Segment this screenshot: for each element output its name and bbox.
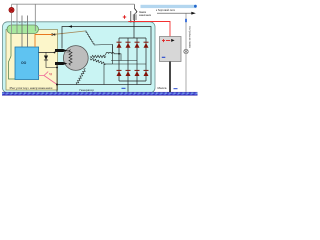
node ground junction (56, 84, 58, 86)
minus mark generator (122, 88, 126, 89)
upper brush (55, 49, 67, 52)
battery minus wire (169, 62, 171, 93)
node diode junction (56, 67, 58, 69)
rectifier bottom bus (119, 80, 146, 82)
star ground drop (103, 64, 105, 85)
onboard net dot (194, 5, 197, 8)
switch label (139, 11, 152, 17)
battery plus tick (166, 39, 170, 42)
ground bus (2, 92, 198, 95)
green wire left (9, 34, 16, 80)
phase bus vertical (112, 45, 114, 65)
onboard arrow wire (157, 12, 192, 14)
plus label left (123, 15, 126, 18)
diode top 2 (126, 42, 131, 48)
node orange junction (54, 34, 56, 36)
generator internal bottom border (50, 84, 151, 86)
node riser top (133, 21, 135, 23)
svg-text:ОО: ОО (21, 61, 27, 65)
control lamp wire (185, 13, 187, 92)
upper brush wire (39, 51, 58, 53)
svg-text:ТД: ТД (49, 73, 52, 76)
minus mark massa (174, 88, 178, 89)
regulator chip DD (15, 47, 39, 80)
blue connector clip (185, 19, 187, 22)
battery plus (162, 39, 165, 42)
orange wire (35, 35, 55, 48)
svg-text:Масса: Масса (158, 86, 167, 90)
diode bottom 4 (144, 70, 149, 76)
rotor slip ring marks (67, 51, 70, 53)
orange wire arrow (52, 33, 55, 35)
lower brush (55, 62, 67, 65)
phase line 2 (111, 60, 137, 62)
red positive wire (128, 22, 170, 37)
rectifier top bus (119, 37, 146, 39)
lamp wire lower (11, 13, 13, 34)
control lamp HL2 (184, 49, 188, 53)
diode bottom 1 (117, 70, 122, 76)
diode top 4 (144, 42, 149, 48)
wire stub d (27, 16, 29, 48)
winding C link (104, 63, 113, 65)
field suppression diode VD (44, 52, 57, 68)
field supply wire (62, 27, 151, 85)
wire drop b (16, 4, 18, 33)
winding D ground zigzag (76, 69, 85, 85)
phase line 3 (113, 63, 146, 65)
rectifier column 2 (127, 38, 129, 81)
battery minus (162, 56, 166, 58)
rectifier column 4 (145, 38, 147, 81)
connector brackets (133, 14, 136, 20)
wire stub c (21, 16, 23, 48)
rectifier column 1 (118, 38, 120, 81)
wire drop e (34, 4, 36, 31)
rectifier ground drop (127, 81, 129, 92)
node brush junction (54, 52, 56, 54)
battery terminal arrow (171, 39, 174, 42)
warning lamp HL (9, 7, 14, 12)
svg-text:Генератор: Генератор (80, 88, 95, 92)
svg-text:зажигания: зажигания (139, 14, 152, 17)
svg-text:Регулятор напряжения: Регулятор напряжения (10, 86, 54, 90)
rotor (63, 46, 88, 71)
diode top 3 (135, 42, 140, 48)
diode top 1 (117, 42, 122, 48)
onboard arrowhead (191, 12, 196, 15)
generator housing box (3, 22, 156, 93)
lamp wire upper (11, 4, 13, 8)
lower brush ground wire (56, 64, 58, 92)
rotor field winding (69, 50, 72, 66)
lamp feed wire (130, 11, 132, 22)
tan phase tap wire (55, 31, 85, 34)
node lamp feed (130, 21, 132, 23)
onboard net band (141, 5, 197, 8)
winding A link (94, 45, 113, 54)
battery GB (160, 37, 182, 62)
connector pill (7, 25, 39, 34)
winding B coil bumps (104, 52, 121, 60)
diode bottom 3 (135, 70, 140, 76)
node phase1 (118, 53, 120, 55)
svg-text:Контрольная лампа: Контрольная лампа (188, 26, 191, 49)
svg-text:к бортовой сети: к бортовой сети (156, 8, 176, 12)
pink wire TD (39, 72, 57, 85)
stator winding B (90, 55, 106, 57)
rectifier column 3 (136, 38, 138, 85)
stator winding A stairs (85, 31, 94, 45)
ignition switch (134, 4, 137, 21)
top wire (12, 3, 135, 5)
plus riser (133, 22, 135, 39)
voltage regulator box (6, 30, 58, 91)
field wire arrow (68, 25, 72, 27)
diode bottom 2 (126, 70, 131, 76)
stator winding C (90, 58, 106, 64)
